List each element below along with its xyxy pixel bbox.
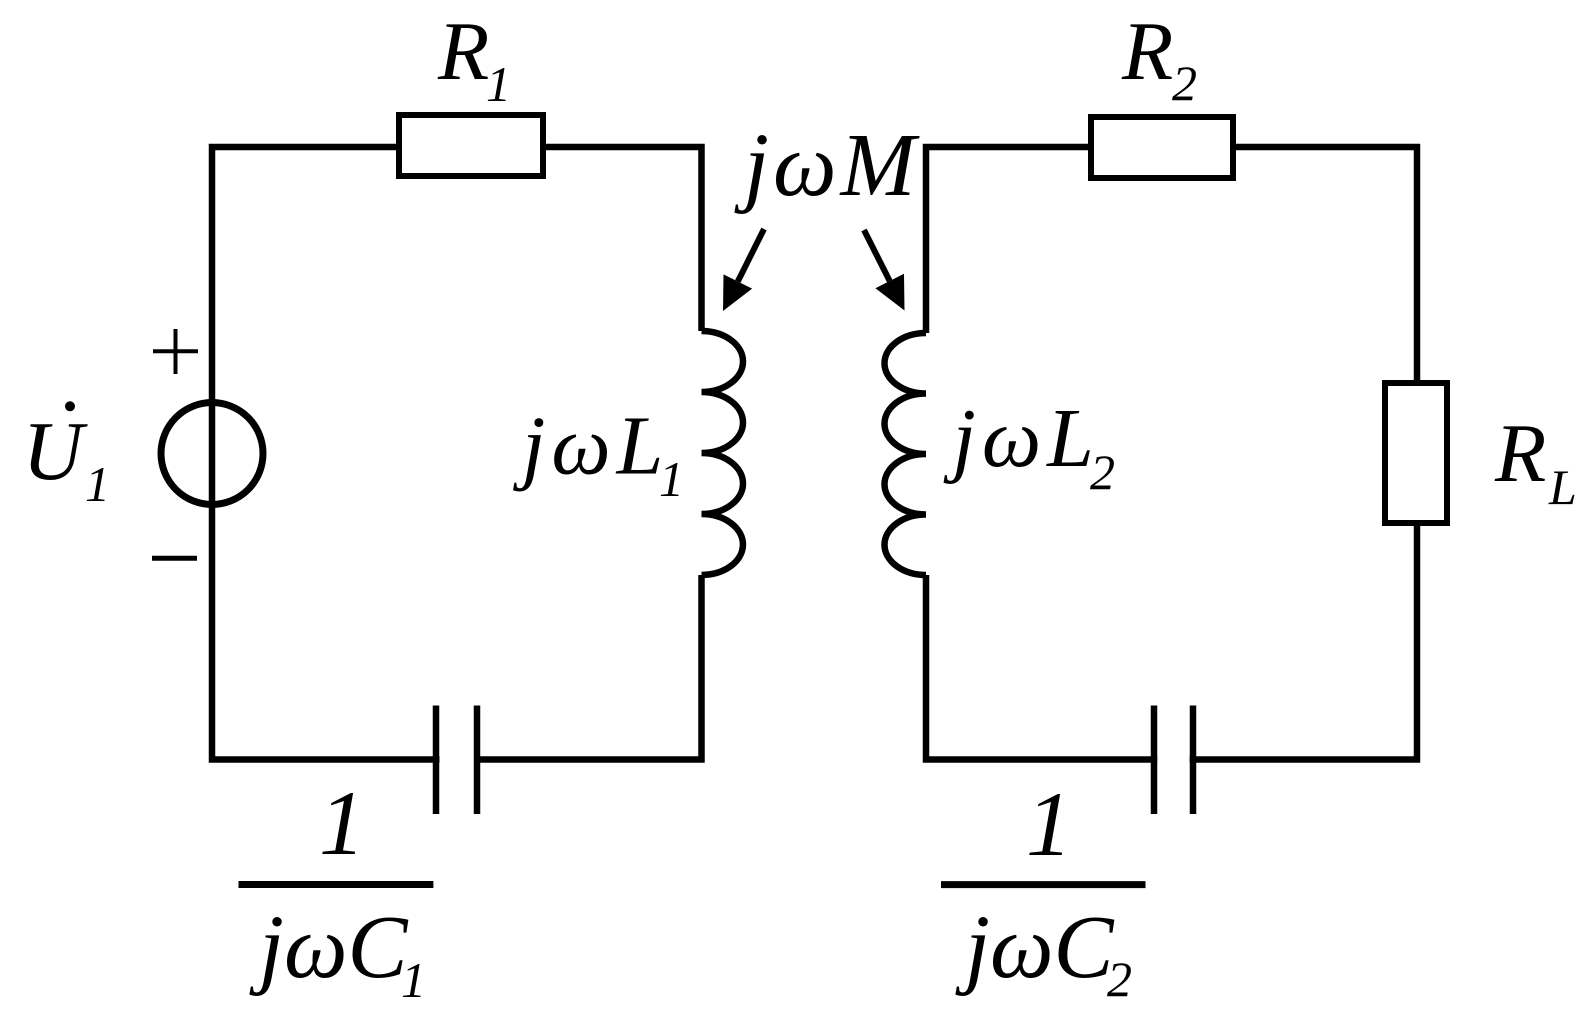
- label U1 (source voltage, dotted): [23, 401, 111, 512]
- svg-text:1: 1: [486, 56, 511, 112]
- svg-text:jωL: jωL: [513, 400, 669, 493]
- svg-text:1: 1: [85, 456, 110, 512]
- capacitor C2 (plates with wire gap): [1154, 706, 1193, 815]
- label jwL1: [513, 400, 684, 508]
- svg-text:R: R: [1494, 407, 1546, 500]
- label 1/(jwC2) fraction: [941, 773, 1146, 1007]
- svg-text:jωL: jωL: [944, 392, 1100, 485]
- mutual coupling arrow left (to L1): [723, 229, 764, 311]
- svg-text:jωC: jωC: [955, 898, 1115, 997]
- label R1: [437, 5, 511, 112]
- svg-text:1: 1: [401, 952, 426, 1008]
- voltage source U1 circle: [161, 403, 263, 505]
- label RL (load resistor): [1494, 407, 1577, 515]
- svg-text:jωM: jωM: [734, 116, 921, 215]
- svg-text:1: 1: [659, 451, 684, 507]
- label 1/(jwC1) fraction: [239, 772, 434, 1008]
- resistor R2 box: [1091, 117, 1233, 178]
- svg-text:2: 2: [1107, 951, 1132, 1007]
- inductor jwL2 coil (4 bumps bulging left): [884, 333, 926, 575]
- svg-text:2: 2: [1172, 55, 1197, 111]
- resistor R1 box: [399, 115, 543, 176]
- svg-text:L: L: [1548, 459, 1577, 515]
- wire: right mesh loop (top, right, bottom sides and left-side straight segments): [926, 147, 1417, 760]
- minus polarity mark: [152, 556, 197, 561]
- svg-text:1: 1: [319, 772, 365, 874]
- resistor RL box: [1385, 383, 1447, 523]
- inductor jwL1 coil (4 bumps bulging right): [702, 331, 744, 575]
- plus polarity mark: [153, 329, 198, 374]
- wire: left mesh loop (top, left, bottom sides and right-side straight segments): [212, 147, 702, 760]
- mutual coupling arrow right (to L2): [864, 230, 905, 311]
- svg-text:2: 2: [1090, 444, 1115, 500]
- svg-text:R: R: [1121, 5, 1173, 98]
- capacitor C1 (plates with wire gap): [436, 706, 477, 815]
- svg-text:jωC: jωC: [249, 898, 409, 997]
- label R2: [1121, 5, 1197, 111]
- svg-text:1: 1: [1026, 773, 1072, 875]
- label jwL2: [944, 392, 1116, 500]
- svg-text:R: R: [437, 5, 489, 98]
- svg-text:U: U: [23, 405, 89, 498]
